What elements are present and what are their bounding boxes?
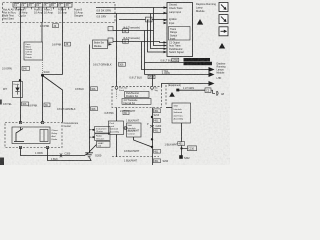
nav icon 3 (right arrow) [219, 27, 228, 36]
wire below interlock solenoid [181, 123, 183, 157]
terminal B circle [151, 86, 154, 89]
DRL module internal sub-box (trans range) [169, 27, 191, 41]
transaxle inner box 1 (PNP switch) [125, 92, 150, 98]
ground feed box 1 [95, 127, 111, 134]
wire to arrow C (4-6 transaxle equipment) [162, 84, 209, 87]
wire stub feed 2 [89, 136, 91, 138]
black label Park/Neutral Switch Signal [184, 62, 213, 66]
label box C2 [205, 88, 211, 93]
op module U1 Daytime Running Lamp module box [167, 3, 193, 57]
wire fuse F7 internal drop [62, 7, 64, 22]
label box 39 (top) [53, 24, 59, 28]
label box 39 on W4 [123, 29, 129, 33]
scan noise overlay [0, 0, 230, 165]
left margin artifact lower (corner) [0, 158, 4, 166]
ground G200 symbol [85, 153, 93, 157]
label box 1738 (terminal B wire) [148, 75, 155, 79]
transaxle inner box 2 [122, 99, 151, 105]
wire link box S1 to box S2 [124, 127, 127, 129]
inline connector C200 marks [150, 125, 154, 127]
label box 451 (row 4) [154, 149, 161, 153]
wire W5 stepped to DRL row [113, 42, 164, 43]
label box 306 (terminal A wire) [119, 62, 126, 66]
label box 451 (row 2) [154, 119, 161, 123]
dotted wire note box to splice [42, 60, 44, 75]
chime switch symbol [14, 127, 24, 142]
wire stub feed 1 [89, 129, 91, 131]
label box 39 below transaxle [123, 111, 129, 115]
wire fuse F7 drop (PNK) [62, 23, 64, 75]
wire 1 ORN to arrow B [145, 74, 209, 76]
wire fuse F2 internal drop [20, 7, 22, 22]
off-page arrow B [209, 72, 215, 77]
fuse strip pin stubs [17, 7, 69, 9]
warning triangle (solenoid) [169, 92, 175, 97]
note box (fuse block details) [24, 42, 43, 60]
warning triangle (right of DRL box) [219, 43, 225, 49]
splice S410 [41, 74, 44, 77]
label box 39 (lower) [44, 103, 50, 107]
ground feed box 2 [95, 134, 111, 141]
wire below transaxle left [116, 108, 118, 122]
wire terminal B drop [152, 75, 154, 87]
wire diagonal feed 3 [89, 145, 96, 152]
DRL module pin arrows [164, 6, 168, 53]
black label Auto Trans Input [184, 58, 211, 62]
connector drop wire [211, 90, 215, 93]
inline connector on conv ground wire [60, 153, 62, 157]
junction W4 vertical tap [144, 31, 146, 75]
wire splice horizontal [43, 74, 63, 76]
reference label box [188, 146, 197, 151]
terminal blob (1 LT GRN wire start) [176, 89, 179, 92]
wire fuse F5 drop into note box [41, 22, 43, 42]
nav icon 2 (diagonal arrow) [219, 15, 228, 24]
connector stub box wire W4 [108, 27, 113, 31]
wire 0.8 LT BLU 1738 [145, 62, 184, 64]
terminal B label [155, 88, 159, 93]
wire vertical from W2 stepping to DRL row [151, 14, 164, 49]
connector stub box wire W5 [108, 38, 113, 42]
convenience center bottom wire 1 [21, 148, 89, 156]
fuse strip cell marks [14, 2, 71, 4]
terminal nubs on convenience center border [19, 121, 48, 148]
connector box top of ground wire [93, 40, 108, 49]
label box 39 (mid) [65, 42, 71, 46]
junction S213 [151, 116, 153, 118]
label Daytime Running Lamp Module (title) [196, 2, 216, 13]
convenience center (dashed box) [5, 123, 62, 148]
label box 308 [91, 107, 98, 111]
wire terminal B vertical below box [152, 108, 154, 166]
warning triangle (near title) [197, 19, 203, 25]
diode D1 box [13, 82, 23, 98]
buzzer inner box [12, 127, 50, 144]
wire 1 YEL to arrow A [142, 42, 209, 70]
label box 1738 [172, 58, 179, 62]
solenoid box S3 (trans interlock) [172, 103, 191, 123]
wire terminal A vertical (top feed) [116, 14, 118, 87]
label box 451 (row 5) [154, 159, 161, 163]
terminal A label [119, 87, 128, 93]
relay coil symbol [40, 130, 48, 142]
wire W3 to DRL module row 3 [119, 19, 167, 21]
wire below solenoid box S1 [116, 135, 118, 158]
label box 451 (row 3) [154, 129, 161, 133]
wire vertical from W3 stepping to DRL row [148, 20, 164, 53]
wire W1 to DRL module row 1 [96, 7, 167, 9]
wire diagonal box S2 to ground bus [134, 137, 153, 147]
page boundary dashed line [112, 156, 159, 158]
splice S302 mark [179, 155, 183, 159]
connector half symbol [217, 91, 218, 96]
convenience center bottom wire 2 [48, 148, 92, 161]
left margin artifact upper [0, 100, 2, 105]
junction S2 diag joint [151, 146, 153, 148]
junction dot (solenoid ground branch) [180, 147, 182, 149]
connector circle between boxes [124, 127, 127, 130]
wire W4 [113, 30, 154, 32]
wire W2 to DRL module row 2 [96, 13, 167, 15]
solenoid box S1 (shift lock) [109, 121, 124, 135]
label box on wire W3 [146, 17, 153, 22]
label box 39 on W5 [123, 39, 129, 43]
fuse strip pin labels [14, 4, 69, 7]
label box 451 (solenoid ground) [178, 142, 185, 146]
label Convenience Center [64, 122, 79, 128]
label box 451 (row 1) [154, 109, 161, 113]
transaxle internal dashed wires [117, 89, 153, 98]
fuse block FB1 (I/P fuse block, dashed) [3, 3, 116, 23]
fuse block internal text labels [3, 8, 111, 21]
nav icon 1 (diagonal arrow) [219, 3, 228, 12]
wire fuse F5 internal drop [42, 7, 44, 22]
wire main ground drop (x89) [89, 45, 91, 153]
wire vertical from W1 stepping to DRL row [154, 8, 164, 46]
wire into interlock solenoid [166, 107, 172, 109]
label box 306 [91, 87, 98, 91]
junction dot row [151, 138, 153, 140]
arrow ground feed 2 [91, 136, 95, 138]
wire left drop (ORN) fuse to convenience center [20, 23, 22, 123]
off-page arrow C [209, 81, 215, 86]
arrow out of connector box [108, 43, 112, 46]
terminal A circle [115, 86, 118, 89]
label Daytime Running Lamps Module (arrows) [217, 63, 227, 81]
wire S410 to convenience center [42, 76, 44, 123]
dashed edge (equipment boundary) [165, 85, 167, 106]
chime internal labels [52, 130, 59, 141]
wire diagonal from S410 [43, 76, 63, 123]
transaxle component (dashed box) [112, 86, 162, 107]
label box 306 (left) [22, 102, 29, 106]
fuse strip (fuses row on top edge) [13, 3, 72, 8]
junction dot above diode [19, 79, 21, 81]
label box 340 [22, 67, 30, 71]
wire 1 LT GRN [178, 89, 205, 91]
solenoid box S2 (shift interlock control) [127, 123, 142, 137]
DRL module lower row labels [169, 42, 184, 55]
arrow ground feed 1 [91, 129, 95, 131]
DRL module internal labels [169, 4, 183, 26]
branch wire to reference box [182, 147, 188, 149]
off-page arrow A [209, 67, 215, 72]
ground feed box 3 [97, 141, 111, 147]
